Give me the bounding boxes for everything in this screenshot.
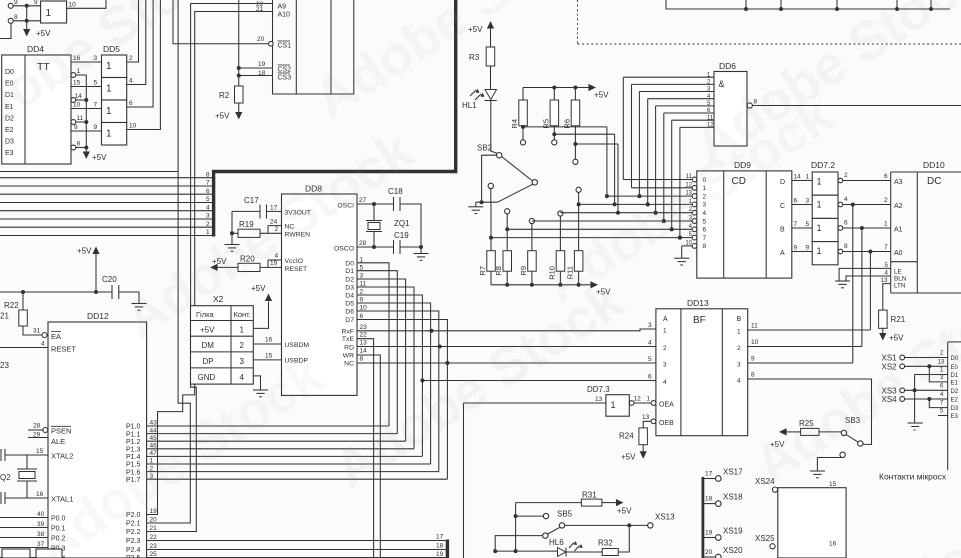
svg-text:&: &	[719, 79, 725, 89]
svg-text:8: 8	[360, 356, 364, 363]
svg-text:C: C	[780, 203, 785, 210]
svg-text:8: 8	[206, 171, 210, 178]
svg-text:A9: A9	[278, 4, 287, 11]
svg-text:P2.4: P2.4	[126, 547, 141, 554]
svg-text:A: A	[780, 250, 785, 257]
svg-text:3: 3	[648, 322, 652, 329]
svg-text:16: 16	[829, 541, 837, 548]
svg-text:SB5: SB5	[557, 510, 573, 519]
svg-text:XS20: XS20	[723, 546, 743, 555]
svg-text:DP: DP	[203, 357, 214, 366]
svg-text:2: 2	[844, 172, 848, 179]
svg-text:17: 17	[705, 470, 713, 477]
svg-text:D3: D3	[345, 285, 354, 292]
svg-text:P1.2: P1.2	[126, 439, 141, 446]
svg-text:R3: R3	[469, 53, 480, 62]
svg-text:1: 1	[647, 396, 651, 403]
svg-text:4: 4	[240, 373, 245, 382]
svg-text:D: D	[780, 179, 785, 186]
svg-text:1: 1	[663, 328, 667, 335]
svg-text:18: 18	[436, 542, 444, 549]
svg-text:9: 9	[14, 0, 18, 6]
svg-text:15: 15	[36, 448, 44, 455]
svg-text:4: 4	[844, 196, 848, 203]
svg-text:BLN: BLN	[894, 275, 907, 282]
svg-text:10: 10	[69, 2, 77, 9]
svg-text:1: 1	[817, 246, 822, 256]
svg-text:6: 6	[206, 188, 210, 195]
svg-text:E3: E3	[5, 150, 14, 157]
svg-text:RESET: RESET	[285, 266, 308, 273]
svg-text:A2: A2	[894, 203, 903, 210]
svg-text:15: 15	[829, 481, 837, 488]
svg-text:D2: D2	[951, 389, 959, 395]
svg-text:3: 3	[240, 357, 245, 366]
svg-text:ZQ1: ZQ1	[394, 219, 410, 228]
svg-text:VccIO: VccIO	[285, 258, 304, 265]
svg-text:20: 20	[705, 549, 713, 556]
svg-text:10: 10	[73, 101, 81, 108]
svg-text:6: 6	[703, 227, 707, 234]
svg-text:9: 9	[751, 356, 755, 363]
svg-text:SB2: SB2	[477, 144, 493, 153]
svg-text:29: 29	[33, 432, 41, 439]
svg-text:7: 7	[94, 101, 98, 108]
svg-text:+5V: +5V	[594, 91, 609, 100]
svg-text:21: 21	[0, 312, 9, 321]
svg-text:1: 1	[737, 329, 741, 336]
svg-text:+5V: +5V	[215, 112, 230, 121]
svg-text:OEB: OEB	[659, 420, 674, 427]
svg-text:GND: GND	[198, 373, 216, 382]
svg-text:13: 13	[642, 414, 650, 421]
svg-text:D3: D3	[951, 406, 959, 412]
svg-text:13: 13	[595, 396, 603, 403]
svg-text:4: 4	[737, 378, 741, 385]
svg-text:3: 3	[737, 362, 741, 369]
svg-text:P2.3: P2.3	[126, 538, 141, 545]
svg-text:+5V: +5V	[251, 284, 266, 293]
svg-text:1: 1	[206, 229, 210, 236]
svg-text:DD10: DD10	[923, 160, 945, 170]
svg-text:1: 1	[817, 200, 822, 210]
svg-text:21: 21	[150, 525, 158, 532]
svg-text:TxE: TxE	[342, 336, 355, 343]
svg-text:17: 17	[436, 533, 444, 540]
svg-text:C20: C20	[102, 275, 117, 284]
svg-text:A10: A10	[278, 12, 291, 19]
svg-text:4: 4	[663, 379, 667, 386]
svg-text:R24: R24	[619, 432, 634, 441]
svg-text:P1.0: P1.0	[126, 424, 141, 431]
svg-text:8: 8	[751, 372, 755, 379]
svg-text:28: 28	[33, 423, 41, 430]
svg-text:19: 19	[705, 529, 713, 536]
svg-text:15: 15	[265, 352, 273, 359]
svg-text:R9: R9	[519, 266, 528, 276]
svg-text:1: 1	[817, 177, 822, 187]
svg-text:NC: NC	[344, 361, 354, 368]
svg-text:4: 4	[885, 269, 889, 276]
svg-text:A: A	[663, 316, 668, 323]
svg-text:A1: A1	[894, 227, 903, 234]
svg-text:R7: R7	[478, 266, 487, 276]
svg-text:XS17: XS17	[723, 468, 743, 477]
svg-text:C17: C17	[244, 196, 259, 205]
svg-text:R31: R31	[582, 491, 597, 500]
svg-text:2: 2	[737, 345, 741, 352]
svg-text:RESET: RESET	[51, 345, 76, 354]
svg-text:CS2: CS2	[278, 67, 292, 74]
svg-text:28: 28	[359, 240, 367, 247]
svg-text:1: 1	[106, 129, 112, 140]
svg-text:R8: R8	[494, 266, 503, 276]
svg-text:11: 11	[77, 115, 84, 122]
svg-text:R22: R22	[4, 301, 19, 310]
svg-text:R32: R32	[598, 539, 613, 548]
svg-text:+5V: +5V	[200, 325, 215, 334]
svg-text:E3: E3	[951, 414, 959, 420]
svg-text:7: 7	[794, 221, 798, 228]
svg-text:4: 4	[648, 340, 652, 347]
svg-text:PSEN: PSEN	[51, 427, 71, 436]
svg-text:+5V: +5V	[92, 153, 107, 162]
svg-text:B: B	[780, 227, 785, 234]
svg-text:2: 2	[206, 221, 210, 228]
svg-text:RD: RD	[344, 345, 354, 352]
svg-text:14: 14	[360, 348, 368, 355]
svg-text:20: 20	[257, 36, 265, 43]
svg-text:9: 9	[34, 0, 38, 6]
svg-text:1: 1	[806, 174, 810, 181]
svg-text:1: 1	[46, 8, 52, 19]
svg-text:DD7.3: DD7.3	[587, 385, 610, 394]
svg-text:9: 9	[794, 245, 798, 252]
svg-text:6: 6	[884, 173, 888, 180]
svg-text:9: 9	[806, 245, 810, 252]
svg-text:8: 8	[703, 243, 707, 250]
svg-text:+5V: +5V	[77, 247, 92, 256]
svg-text:18: 18	[258, 70, 266, 77]
svg-text:Конт.: Конт.	[234, 310, 251, 319]
svg-text:XS25: XS25	[755, 534, 775, 543]
svg-text:1: 1	[106, 106, 112, 117]
svg-text:8: 8	[844, 243, 848, 250]
svg-text:DD13: DD13	[687, 298, 709, 308]
svg-text:LTN: LTN	[894, 282, 906, 289]
svg-text:6: 6	[794, 198, 798, 205]
svg-text:P1.1: P1.1	[126, 431, 141, 438]
svg-text:DM: DM	[202, 341, 215, 350]
svg-text:10: 10	[751, 339, 759, 346]
svg-text:D6: D6	[345, 309, 354, 316]
svg-text:E2: E2	[951, 398, 959, 404]
svg-text:5: 5	[206, 196, 210, 203]
svg-text:1: 1	[240, 325, 245, 334]
svg-text:19: 19	[436, 551, 444, 558]
svg-text:A3: A3	[894, 179, 903, 186]
svg-text:Q2: Q2	[0, 473, 11, 482]
svg-text:DD7.2: DD7.2	[811, 160, 835, 170]
svg-text:D2: D2	[345, 277, 354, 284]
svg-text:8: 8	[14, 14, 18, 21]
svg-text:2: 2	[129, 55, 133, 62]
svg-text:ALE: ALE	[51, 437, 65, 446]
svg-text:1: 1	[611, 400, 616, 410]
svg-text:EA: EA	[51, 332, 61, 341]
svg-text:20: 20	[150, 517, 158, 524]
svg-text:9: 9	[74, 124, 78, 131]
svg-text:HL1: HL1	[462, 101, 477, 110]
svg-text:16: 16	[36, 491, 44, 498]
svg-text:D0: D0	[345, 260, 354, 267]
svg-text:XS13: XS13	[655, 513, 675, 522]
svg-text:D3: D3	[5, 139, 14, 146]
svg-text:13: 13	[360, 340, 368, 347]
svg-text:5: 5	[94, 79, 98, 86]
svg-text:8: 8	[77, 140, 81, 147]
svg-text:RxF: RxF	[342, 328, 354, 335]
svg-text:22: 22	[360, 332, 368, 339]
svg-text:D7: D7	[345, 317, 354, 324]
svg-text:14: 14	[75, 93, 83, 100]
svg-text:Контакти мікросх: Контакти мікросх	[879, 472, 947, 482]
svg-text:XTAL2: XTAL2	[51, 452, 73, 461]
svg-text:31: 31	[33, 328, 41, 335]
svg-text:2: 2	[884, 197, 888, 204]
svg-text:18: 18	[705, 495, 713, 502]
svg-text:10: 10	[685, 240, 692, 246]
svg-text:6: 6	[129, 100, 133, 107]
svg-text:R21: R21	[891, 315, 906, 324]
svg-text:DD6: DD6	[719, 61, 736, 71]
svg-text:5: 5	[885, 262, 889, 269]
svg-text:16: 16	[265, 336, 273, 343]
svg-text:3: 3	[806, 198, 810, 205]
svg-text:6: 6	[844, 220, 848, 227]
svg-text:2: 2	[240, 341, 245, 350]
svg-text:5: 5	[648, 356, 652, 363]
svg-text:14: 14	[794, 174, 802, 181]
svg-text:R4: R4	[510, 119, 519, 129]
svg-text:XS18: XS18	[723, 493, 743, 502]
svg-text:D5: D5	[345, 301, 354, 308]
svg-text:DC: DC	[927, 176, 941, 187]
svg-text:C19: C19	[394, 231, 409, 240]
svg-text:9: 9	[94, 124, 98, 131]
svg-text:23: 23	[0, 361, 9, 370]
svg-text:1: 1	[106, 84, 112, 95]
svg-text:3: 3	[206, 213, 210, 220]
svg-text:LE: LE	[894, 268, 902, 275]
svg-text:DD12: DD12	[87, 311, 109, 321]
svg-text:6: 6	[648, 374, 652, 381]
svg-text:7: 7	[703, 235, 707, 242]
svg-text:OSCO: OSCO	[334, 246, 354, 253]
svg-text:1: 1	[817, 223, 822, 233]
svg-text:OEA: OEA	[659, 402, 674, 409]
svg-text:4: 4	[129, 77, 133, 84]
svg-text:11: 11	[751, 323, 758, 330]
svg-text:4: 4	[206, 204, 210, 211]
svg-text:+5V: +5V	[617, 507, 632, 516]
svg-text:5: 5	[806, 221, 810, 228]
svg-text:R2: R2	[219, 91, 230, 100]
svg-text:3: 3	[663, 362, 667, 369]
svg-text:7: 7	[206, 180, 210, 187]
svg-text:XS19: XS19	[723, 527, 743, 536]
svg-text:+5V: +5V	[621, 452, 636, 461]
svg-text:CS3: CS3	[278, 75, 292, 82]
svg-text:21: 21	[256, 6, 264, 13]
svg-text:4: 4	[41, 341, 45, 348]
svg-text:12: 12	[634, 396, 642, 403]
svg-text:BF: BF	[693, 315, 706, 326]
svg-text:HL6: HL6	[549, 538, 564, 547]
svg-text:13: 13	[881, 277, 888, 284]
svg-text:23: 23	[360, 324, 368, 331]
svg-text:WR: WR	[343, 353, 354, 360]
svg-text:A0: A0	[894, 250, 903, 257]
svg-text:B: B	[737, 316, 742, 323]
svg-text:7: 7	[884, 244, 888, 251]
svg-text:P2.2: P2.2	[126, 529, 141, 536]
svg-text:1: 1	[884, 221, 888, 228]
svg-text:CS1: CS1	[278, 43, 292, 50]
svg-text:2: 2	[663, 345, 667, 352]
svg-text:D4: D4	[345, 293, 354, 300]
svg-text:D1: D1	[345, 268, 354, 275]
svg-text:19: 19	[258, 61, 266, 68]
svg-text:10: 10	[129, 122, 137, 129]
